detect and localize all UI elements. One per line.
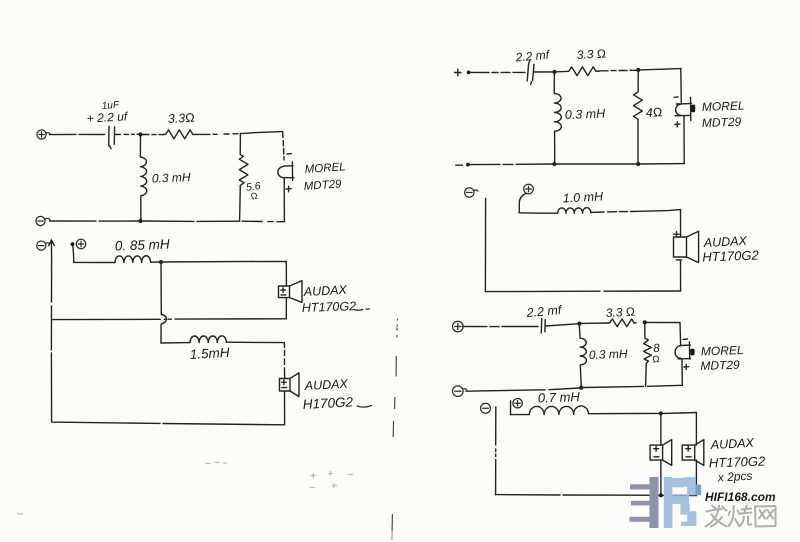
wire + down to L7 bbox=[510, 401, 512, 415]
wire input + to capacitor bbox=[50, 133, 105, 135]
speaker SP5 AUDAX HT170G2 bbox=[682, 440, 704, 466]
inductor L5 1.0mH bbox=[558, 208, 591, 214]
inductor L1 0.3mH vertical bbox=[140, 137, 146, 220]
svg-text:x 2pcs: x 2pcs bbox=[716, 469, 752, 485]
node junction (SP4 bottom) bbox=[659, 493, 663, 497]
inductor L3 1.5mH bbox=[190, 336, 226, 343]
svg-text:MOREL: MOREL bbox=[304, 161, 346, 176]
svg-text:0. 85 mH: 0. 85 mH bbox=[115, 237, 171, 254]
tweeter U1 MOREL MDT29 bbox=[278, 132, 294, 221]
label AUDAX H170G2 (SP2) bbox=[302, 377, 371, 412]
node junction (C2 / L4) bbox=[552, 70, 556, 74]
value label 2.2 mf C3 bbox=[525, 303, 563, 320]
svg-text:0.7 mH: 0.7 mH bbox=[538, 389, 581, 405]
label AUDAX HT170G2 (SP1) bbox=[302, 283, 370, 315]
wire SP4 return down bbox=[660, 460, 662, 495]
node junction (R4 bottom) bbox=[636, 162, 640, 166]
svg-text:MDT29: MDT29 bbox=[700, 358, 740, 373]
svg-text:3.3Ω: 3.3Ω bbox=[167, 111, 195, 126]
node junction (R5 / R6) bbox=[643, 320, 647, 324]
value label 3.3 ohm R5 bbox=[605, 304, 635, 320]
inductor L6 0.3mH vertical bbox=[579, 326, 586, 388]
capacitor C1 2.2uF bbox=[109, 127, 139, 149]
svg-text:Ω: Ω bbox=[652, 354, 660, 365]
wire SP5 feed down bbox=[695, 413, 697, 446]
bottom wire circuit1 bbox=[50, 220, 285, 223]
terminal - (top-right input) bbox=[456, 164, 463, 166]
svg-text:MDT29: MDT29 bbox=[303, 178, 342, 193]
svg-text:0.3 mH: 0.3 mH bbox=[565, 107, 607, 122]
wire R1 to node bbox=[196, 133, 238, 136]
resistor R4 4ohm vertical bbox=[633, 72, 642, 162]
svg-text:HT170G2: HT170G2 bbox=[302, 299, 357, 315]
node dot input + bbox=[467, 71, 471, 75]
pencil noise marks bottom-left bbox=[18, 463, 353, 515]
value label 3.3ohm R1 bbox=[167, 111, 195, 126]
svg-text:3.3 Ω: 3.3 Ω bbox=[605, 304, 635, 320]
tweeter U2 MOREL MDT29 bbox=[674, 69, 695, 164]
value label 1uF bbox=[101, 100, 120, 112]
svg-text:MOREL: MOREL bbox=[702, 99, 745, 114]
value label 0.3mH L1 bbox=[152, 170, 191, 185]
inductor L7 0.7mH bbox=[529, 406, 588, 415]
node dot (positive input) bbox=[71, 242, 75, 246]
watermark logo glyph 2 (blue) bbox=[664, 477, 697, 528]
node junction (L4 bottom) bbox=[552, 162, 556, 166]
value label 0.3 mH L4 bbox=[565, 107, 607, 122]
svg-text:0.3 mH: 0.3 mH bbox=[589, 347, 628, 362]
label MOREL MDT29 (circuit1) bbox=[303, 161, 346, 193]
svg-text:AUDAX: AUDAX bbox=[709, 436, 754, 452]
value label 8 ohm R6 bbox=[652, 342, 661, 365]
node dot input - bbox=[466, 163, 470, 167]
wire negative rail left vertical bbox=[50, 258, 52, 421]
resistor R3 3.3ohm bbox=[567, 67, 599, 76]
node junction (cap / L1) bbox=[139, 133, 143, 137]
bottom wire circuit3 bbox=[470, 164, 684, 165]
svg-text:0.3 mH: 0.3 mH bbox=[152, 170, 191, 185]
capacitor C3 2.2mf bbox=[541, 319, 577, 333]
value label 0.85 mH L2 bbox=[115, 237, 171, 254]
node junction (L6 bottom) bbox=[579, 386, 583, 390]
value label 4 ohm R4 bbox=[645, 105, 662, 120]
speaker SP3 AUDAX HT170G2 bbox=[674, 231, 699, 262]
inductor L2 0.85mH bbox=[115, 256, 151, 263]
value label 1.5mH L3 bbox=[189, 345, 230, 362]
value label 3.3 ohm R3 bbox=[576, 46, 606, 62]
node junction (SP4 top) bbox=[659, 411, 663, 415]
wire node to tweeter branch bbox=[647, 321, 680, 323]
resistor R6 8ohm vertical bbox=[644, 324, 652, 386]
svg-text:HIFI168.com: HIFI168.com bbox=[705, 490, 776, 504]
wire SP3 return down bbox=[680, 260, 682, 291]
node junction (R4 top) bbox=[636, 68, 640, 72]
terminal - (mid-right woofer) bbox=[465, 188, 478, 197]
wire L2 to junction bbox=[151, 261, 160, 263]
watermark logo accent (dark blue) bbox=[696, 485, 701, 496]
label MOREL MDT29 (circuit5) bbox=[700, 343, 744, 373]
wire junction to R5 bbox=[581, 322, 608, 324]
wire + down to L5 bbox=[519, 194, 526, 213]
svg-text:Ω: Ω bbox=[250, 191, 258, 202]
svg-text:1.0 mH: 1.0 mH bbox=[562, 189, 604, 205]
svg-text:1.5mH: 1.5mH bbox=[189, 345, 230, 362]
wire L7 to speakers bbox=[589, 412, 659, 414]
terminal + (top-right input) bbox=[455, 69, 461, 75]
wire R3 to node bbox=[599, 69, 636, 72]
node junction (C3 / L6 / R5) bbox=[577, 322, 581, 326]
terminal + (bottom-right woofer) bbox=[513, 399, 522, 408]
wire SP1 return down bbox=[285, 298, 287, 319]
wire + to capacitor C3 bbox=[463, 326, 538, 328]
svg-text:4Ω: 4Ω bbox=[645, 105, 662, 120]
value label 1.0 mH L5 bbox=[562, 189, 604, 205]
watermark text HIFI168.com bbox=[705, 490, 776, 504]
wire node to inductor L3 bbox=[161, 342, 190, 344]
wire node down to SP4 bbox=[660, 413, 662, 440]
svg-text:3.3 Ω: 3.3 Ω bbox=[576, 46, 606, 62]
bottom wire circuit6 bbox=[496, 494, 697, 497]
watermark logo glyph 1 (gray) bbox=[630, 477, 659, 528]
terminal + (mid-right woofer) bbox=[524, 184, 534, 194]
resistor R2 5.6ohm vertical bbox=[239, 134, 248, 221]
terminal + (top-left input) bbox=[37, 130, 50, 139]
wire SP1 return to negative rail bbox=[52, 318, 287, 321]
arrow up on negative rail bbox=[49, 240, 55, 258]
label AUDAX HT170G2 x2pcs bbox=[709, 436, 767, 485]
resistor R5 3.3ohm bbox=[608, 319, 636, 327]
wire L3 to SP2 bbox=[227, 342, 285, 377]
svg-text:HT170G2: HT170G2 bbox=[702, 247, 760, 264]
wire negative rail vertical (mid-right) bbox=[484, 199, 486, 292]
terminal - (lower-right tweeter input) bbox=[453, 386, 467, 397]
svg-text:8: 8 bbox=[653, 342, 661, 354]
wire negative rail vertical (bottom-right) bbox=[495, 407, 497, 495]
wire SP5 return down bbox=[695, 460, 697, 495]
svg-text:+ 2.2 uf: + 2.2 uf bbox=[86, 109, 129, 125]
speaker SP4 AUDAX HT170G2 bbox=[650, 440, 672, 466]
wire + dot down to L2 bbox=[73, 246, 74, 262]
capacitor C2 2.2mf bbox=[527, 60, 552, 85]
wire top to tweeter branch bbox=[241, 132, 283, 134]
terminal - (top-left input) bbox=[36, 216, 50, 225]
wire to inductor L2 bbox=[74, 261, 115, 263]
svg-text:MDT29: MDT29 bbox=[702, 115, 742, 130]
svg-text:HT170G2: HT170G2 bbox=[709, 454, 767, 471]
terminal - (woofer section left) bbox=[37, 241, 50, 250]
value label 0.7 mH L7 bbox=[538, 389, 581, 405]
label AUDAX HT170G2 (SP3) bbox=[702, 234, 760, 265]
inductor L4 0.3mH vertical bbox=[554, 74, 561, 162]
node junction A bbox=[159, 260, 163, 264]
watermark text wang (CJK stroke drawing) bbox=[755, 506, 776, 527]
svg-text:2.2 mf: 2.2 mf bbox=[525, 303, 563, 320]
wire L5 to SP3 bbox=[591, 210, 681, 237]
speaker SP2 AUDAX H170G2 bbox=[280, 373, 300, 397]
svg-text:MOREL: MOREL bbox=[701, 343, 744, 358]
svg-text:AUDAX: AUDAX bbox=[303, 377, 348, 393]
value label + 2.2 uf bbox=[86, 109, 129, 125]
terminal + (lower-right tweeter input) bbox=[453, 321, 464, 332]
bottom wire circuit5 bbox=[466, 385, 682, 391]
wire SP2 return down to bottom rail bbox=[284, 391, 286, 425]
svg-text:2.2 mf: 2.2 mf bbox=[514, 47, 551, 64]
resistor R1 3.3ohm bbox=[164, 130, 196, 139]
wire node A down to L3 (hop over return wire) bbox=[161, 262, 166, 343]
tweeter U3 MOREL MDT29 bbox=[675, 323, 695, 386]
svg-text:AUDAX: AUDAX bbox=[302, 283, 347, 299]
value label 5.6 ohm R2 bbox=[245, 180, 261, 202]
bottom wire circuit2 bbox=[52, 421, 285, 425]
value label 2.2 mf C2 bbox=[514, 47, 551, 64]
watermark text fa (CJK stroke drawing) bbox=[706, 506, 727, 527]
wire node to SP5 bbox=[663, 412, 697, 415]
label MOREL MDT29 (circuit3) bbox=[702, 99, 745, 130]
wire node to tweeter branch bbox=[640, 69, 681, 70]
svg-text:H170G2: H170G2 bbox=[302, 394, 353, 412]
value label 0.3 mH L6 bbox=[589, 347, 628, 362]
wire to inductor L5 bbox=[519, 212, 558, 214]
bottom wire circuit4 bbox=[485, 290, 680, 293]
wire junction to R1 bbox=[143, 134, 164, 136]
scan fold line dashes bbox=[392, 319, 398, 541]
speaker SP1 AUDAX HT170G2 bbox=[279, 281, 303, 303]
wire + to capacitor C2 bbox=[471, 71, 526, 73]
wire node A to SP1 bbox=[161, 261, 286, 281]
terminal + (woofer section) bbox=[76, 239, 85, 248]
watermark text shao (CJK stroke drawing) bbox=[729, 506, 752, 527]
wire junction to R3 bbox=[557, 70, 567, 72]
terminal - (bottom-right woofer) bbox=[481, 403, 491, 413]
node junction (L1 bottom) bbox=[139, 219, 143, 223]
wire to inductor L7 bbox=[511, 414, 530, 416]
